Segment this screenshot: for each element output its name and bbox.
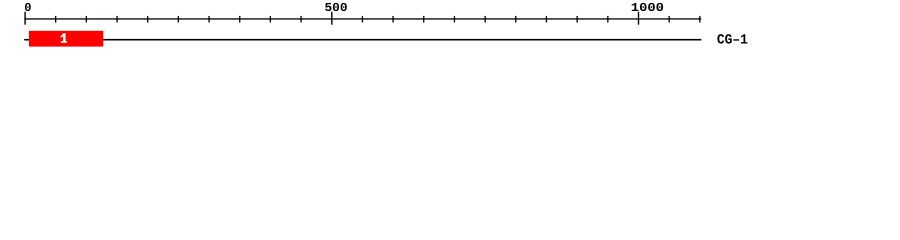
minor tick 200 xyxy=(147,16,148,23)
major tick 0 xyxy=(24,12,25,25)
minor tick 450 xyxy=(300,16,301,23)
svg-text:1000: 1000 xyxy=(631,1,664,15)
svg-text:0: 0 xyxy=(24,1,31,15)
minor tick 350 xyxy=(239,16,240,23)
minor tick 600 xyxy=(392,16,393,23)
svg-text:500: 500 xyxy=(325,1,348,15)
svg-text:CG–1: CG–1 xyxy=(717,33,748,49)
minor tick 1100 xyxy=(699,16,700,23)
minor tick 100 xyxy=(86,16,87,23)
major tick 500 xyxy=(331,12,332,25)
minor tick 550 xyxy=(362,16,363,23)
minor tick 700 xyxy=(454,16,455,23)
minor tick 1050 xyxy=(669,16,670,23)
minor tick 850 xyxy=(546,16,547,23)
ruler axis line xyxy=(24,18,701,19)
minor tick 50 xyxy=(55,16,56,23)
minor tick 650 xyxy=(423,16,424,23)
minor tick 300 xyxy=(208,16,209,23)
domain box 1 (red) xyxy=(29,31,103,47)
background xyxy=(0,0,900,58)
minor tick 750 xyxy=(485,16,486,23)
minor tick 900 xyxy=(577,16,578,23)
domain box label 1 xyxy=(60,33,67,42)
minor tick 800 xyxy=(515,16,516,23)
major tick 1000 xyxy=(638,12,639,25)
minor tick 400 xyxy=(270,16,271,23)
minor tick 950 xyxy=(607,16,608,23)
minor tick 250 xyxy=(178,16,179,23)
minor tick 150 xyxy=(116,16,117,23)
protein backbone line xyxy=(24,39,701,41)
